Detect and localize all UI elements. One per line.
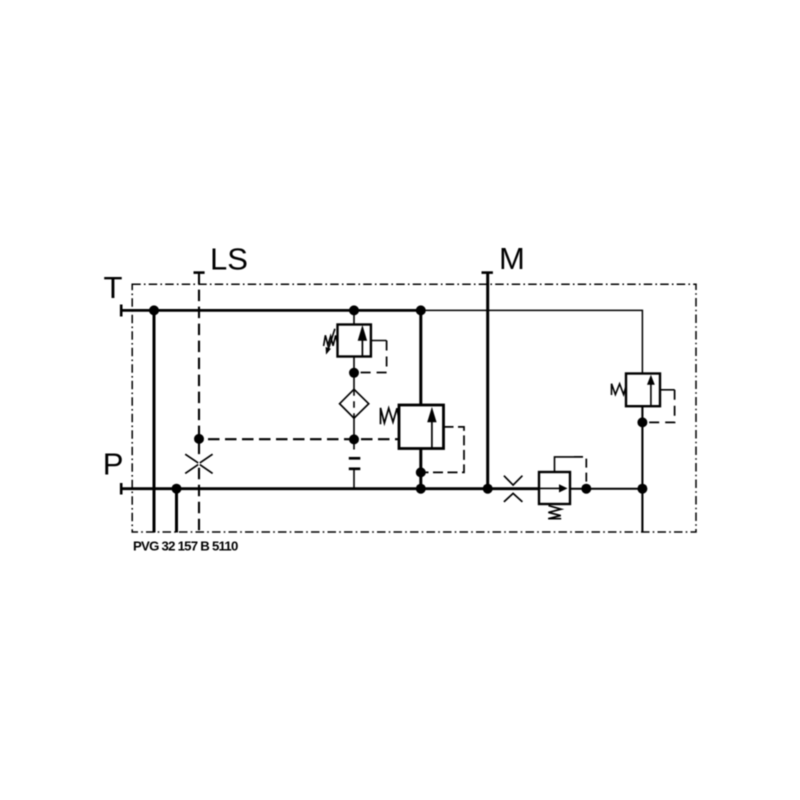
pilot line valve3 solid part	[660, 389, 675, 391]
junction dots	[149, 305, 647, 493]
node M/P	[483, 484, 493, 494]
filter (diamond)	[340, 389, 369, 418]
wire valve1 upper stem	[353, 310, 355, 324]
node LS branch	[194, 434, 204, 444]
plug bar upper	[349, 457, 361, 460]
wire filter lower stem	[353, 418, 355, 439]
port tick T	[120, 305, 123, 317]
valve V1 pilot relief (box)	[338, 325, 371, 357]
orifice on LS line	[185, 454, 212, 473]
node valve3 pilot	[637, 417, 647, 427]
pilot line valve2 dashed	[421, 427, 464, 473]
pilot line valve4 solid part	[555, 457, 575, 472]
svg-text:LS: LS	[210, 242, 248, 277]
LS line horizontal to valve2 (dashed)	[199, 438, 399, 440]
wire P drop (thick vertical from P)	[175, 489, 178, 533]
wire valve3 lower stem (thin)	[641, 406, 643, 532]
orifice on P line	[504, 476, 523, 502]
valve V2 spring	[381, 408, 399, 424]
node T/tank drop	[149, 305, 159, 315]
valve V2 flow arrow	[427, 407, 436, 449]
wire valve2 lower stem (thick)	[419, 449, 422, 489]
svg-text:PVG 32 157 B 5110: PVG 32 157 B 5110	[133, 539, 238, 554]
wire valve1 lower stem	[353, 357, 355, 374]
valve V4 spring	[548, 506, 561, 519]
wire P main (thick)	[121, 487, 539, 490]
valve V2 main relief (box)	[399, 405, 444, 449]
port tick P	[120, 483, 123, 495]
wire T main (thick)	[121, 309, 421, 312]
enclosure border (dash-dot frame)	[132, 284, 696, 532]
node valve1 pilot	[349, 368, 359, 378]
pilot line valve4 dashed	[574, 457, 586, 489]
wire filter upper stem	[353, 373, 355, 389]
wire below plug to P	[353, 470, 355, 489]
node valve3/P	[637, 484, 647, 494]
svg-text:T: T	[104, 270, 123, 305]
pilot line valve1 dashed	[354, 341, 387, 373]
wire T continuation to valve3 (thin)	[421, 310, 642, 373]
valve V1 flow arrow	[358, 325, 367, 357]
valve V4 reducing valve (box)	[539, 472, 570, 504]
svg-text:M: M	[499, 241, 525, 276]
pilot line valve1 solid part	[371, 340, 387, 342]
wire tank drop (thick vertical from T)	[153, 310, 156, 532]
pilot line valve3 dashed	[642, 390, 674, 423]
valve V3 flow arrow	[647, 375, 655, 407]
LS line vertical lower (dashed)	[198, 468, 200, 533]
svg-text:P: P	[103, 447, 124, 482]
node T/valve1	[349, 305, 359, 315]
valve V1 adjustable spring	[324, 335, 338, 346]
node T/valve2	[416, 305, 426, 315]
port tick LS	[194, 271, 205, 274]
node valve2 pilot	[416, 467, 426, 477]
node P/P-drop	[172, 484, 182, 494]
wire P right segment (thin)	[570, 488, 642, 490]
valve V4 flow arrow	[539, 484, 568, 492]
node valve4 pilot/P	[581, 484, 591, 494]
filter element (dashed diagonal)	[353, 389, 355, 418]
wire valve2 upper stem (thick)	[419, 310, 422, 405]
wire plug stub	[353, 439, 355, 449]
plug bar lower	[349, 467, 361, 470]
node valve2/P	[416, 484, 426, 494]
valve V1 adjustment arrow	[326, 329, 335, 355]
port tick M	[482, 271, 493, 274]
node LS/filter	[349, 434, 359, 444]
wire M line (thick vertical)	[486, 273, 489, 489]
valve V3 relief (box)	[626, 374, 660, 407]
valve V3 spring	[612, 384, 627, 395]
LS line vertical upper (dashed)	[198, 273, 200, 460]
